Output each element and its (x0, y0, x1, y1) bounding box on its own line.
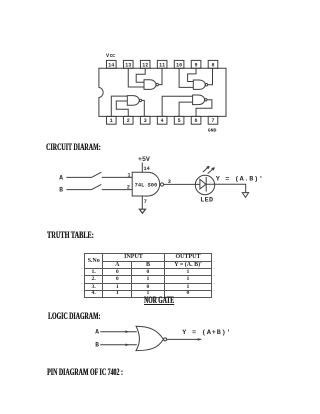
wire pin2 to G1 input (116, 101, 128, 116)
svg-text:B: B (95, 342, 99, 349)
pin 9 box (191, 60, 201, 68)
pin 1 box (107, 116, 117, 124)
gate G1 output bubble (139, 99, 141, 101)
wire +5V to pin 14 of U1 (141, 163, 143, 173)
svg-text:5: 5 (178, 118, 181, 124)
LED D1 cathode bar (205, 177, 207, 192)
heading: LOGIC DIAGRAM: (48, 311, 100, 321)
pin 14 box (107, 60, 117, 68)
heading: PIN DIAGRAM OF IC 7402 : (47, 367, 123, 377)
svg-text:A: A (95, 329, 99, 336)
svg-text:B: B (59, 187, 63, 194)
IC U1 74LS00 gate body (132, 172, 160, 196)
svg-text:14: 14 (108, 62, 114, 68)
IC body U2 (7402 DIP-14 outline with notch) (99, 68, 226, 116)
pin 4 box (157, 116, 167, 124)
GND label (pin diagram) (208, 127, 217, 133)
gate G4 (top-left NOR, pins 12,13 in / 11 out) (144, 80, 156, 90)
gate G2 (bottom-right NOR, pins 4,5 in / 6 out) (193, 95, 205, 105)
wire SW2 to 74LS00 pin2 (102, 189, 132, 191)
U1 output bubble (160, 183, 163, 186)
svg-text:7: 7 (211, 118, 214, 124)
Vcc label (106, 53, 115, 59)
pin 12 box (140, 60, 150, 68)
svg-text:10: 10 (176, 62, 182, 68)
wire U1 pin3 to LED anode (164, 183, 200, 185)
NOR gate output bubble (164, 338, 167, 341)
svg-text:2: 2 (127, 118, 130, 124)
svg-text:GND: GND (208, 127, 217, 133)
wire pin1 to G1 input (111, 96, 127, 116)
pin 6 box (191, 116, 201, 124)
svg-text:8: 8 (211, 62, 214, 68)
LED emission arrow 1 (203, 166, 210, 172)
wire pin12 to G4 input (136, 68, 145, 82)
wire B into NOR gate (100, 344, 137, 346)
svg-text:11: 11 (159, 62, 165, 68)
gate G1 (bottom-left NOR, pins 1,2 in / 3 out) (127, 96, 139, 106)
pin 11 box (157, 60, 167, 68)
NOR gate body (logic diagram) (136, 326, 163, 350)
svg-text:12: 12 (142, 62, 148, 68)
wire pin9 to G3 input (188, 68, 196, 81)
pin 8 box (208, 60, 218, 68)
switch SW2 blade (92, 184, 102, 189)
heading: TRUTH TABLE: (47, 230, 94, 240)
wire pin10 to G3 input (179, 68, 193, 87)
LED D1 diode triangle (200, 179, 206, 189)
LED D1 circle (195, 175, 214, 194)
wire A to switch SW1 (66, 176, 91, 178)
ground symbol (right of LED) (242, 193, 248, 198)
pin 7 box (208, 116, 218, 124)
wire G4 output to pin11 (158, 68, 162, 84)
truth table (84, 253, 212, 298)
pin 10 box (174, 60, 184, 68)
svg-text:LED: LED (200, 197, 213, 205)
wire B to switch SW2 (66, 189, 91, 191)
pin 2 box (123, 116, 133, 124)
svg-text:6: 6 (195, 118, 198, 124)
svg-text:9: 9 (195, 62, 198, 68)
pin 3 box (140, 116, 150, 124)
svg-text:3: 3 (144, 118, 147, 124)
svg-text:4: 4 (161, 118, 164, 124)
svg-text:A: A (59, 175, 63, 182)
wire U1 pin 7 to ground (141, 196, 143, 209)
svg-text:13: 13 (125, 62, 131, 68)
svg-text:+5V: +5V (138, 156, 150, 163)
svg-text:CC: CC (110, 53, 115, 59)
svg-text:1: 1 (128, 173, 131, 179)
gate G3 (top-right NOR, pins 9,10 in / 8 out) (193, 80, 205, 89)
wire SW1 to 74LS00 pin1 (102, 176, 132, 178)
wire pin5 to G2 input (179, 102, 193, 116)
pin 5 box (174, 116, 184, 124)
wire G1 output to pin3 (142, 100, 145, 116)
caption: NOR GATE (144, 295, 174, 305)
switch SW1 blade (92, 172, 102, 177)
wire G2 output to pin6 (196, 100, 212, 117)
svg-text:Y = (A+B)': Y = (A+B)' (182, 329, 231, 337)
ground symbol (below U1) (139, 209, 145, 213)
wire G3 output to pin8 (208, 68, 213, 84)
pin 13 box (123, 60, 133, 68)
svg-text:1: 1 (110, 118, 113, 124)
svg-text:7: 7 (144, 199, 147, 205)
heading: CIRCUIT DIARAM: (46, 142, 101, 152)
wire A into NOR gate (100, 331, 137, 333)
svg-text:74L S00: 74L S00 (135, 182, 158, 188)
wire NOR output to Y (167, 338, 202, 340)
gate G3 output bubble (205, 84, 207, 86)
svg-text:14: 14 (144, 166, 150, 172)
svg-text:Y = (A.B)': Y = (A.B)' (216, 176, 264, 184)
gate G4 output bubble (156, 83, 158, 85)
svg-text:2: 2 (127, 185, 130, 191)
wire LED cathode to ground (206, 184, 246, 192)
gate G2 output bubble (205, 99, 207, 101)
wire pin4 to G2 input (162, 96, 192, 116)
wire pin13 to G4 input (128, 68, 144, 87)
LED emission arrow 2 (208, 168, 215, 174)
